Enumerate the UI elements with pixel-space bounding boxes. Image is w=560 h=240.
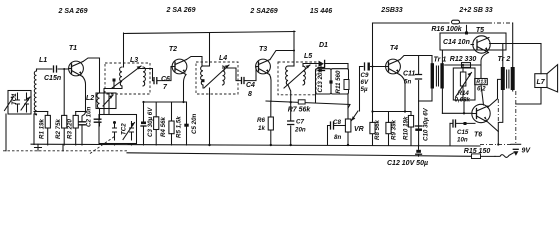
svg-text:8: 8 bbox=[248, 91, 252, 98]
svg-text:C7: C7 bbox=[296, 119, 304, 126]
svg-text:R16 100k: R16 100k bbox=[431, 26, 462, 33]
svg-text:C13 20n: C13 20n bbox=[317, 69, 324, 93]
svg-text:R9 39k: R9 39k bbox=[391, 119, 398, 140]
svg-text:C14 10n: C14 10n bbox=[443, 39, 470, 46]
svg-text:R1 19k: R1 19k bbox=[39, 118, 46, 139]
svg-text:9V: 9V bbox=[522, 148, 532, 155]
svg-text:C12 10V 50µ: C12 10V 50µ bbox=[387, 160, 428, 167]
svg-text:T2: T2 bbox=[169, 46, 177, 53]
svg-text:L2: L2 bbox=[86, 95, 94, 102]
svg-text:R7 56k: R7 56k bbox=[288, 107, 312, 114]
svg-text:T1: T1 bbox=[69, 45, 77, 52]
svg-text:R8 56k: R8 56k bbox=[374, 119, 381, 140]
svg-text:L7: L7 bbox=[537, 79, 546, 86]
svg-text:C4: C4 bbox=[246, 82, 255, 89]
svg-text:C10 30µ 6V: C10 30µ 6V bbox=[423, 107, 430, 141]
svg-text:Tr 1: Tr 1 bbox=[434, 57, 447, 64]
svg-text:5n: 5n bbox=[404, 79, 411, 86]
svg-text:20n: 20n bbox=[294, 127, 306, 134]
svg-text:R4 56k: R4 56k bbox=[160, 116, 167, 137]
svg-text:TC2: TC2 bbox=[121, 123, 128, 135]
svg-text:R12 330: R12 330 bbox=[450, 56, 477, 63]
svg-text:1k: 1k bbox=[258, 125, 265, 132]
svg-text:D1: D1 bbox=[319, 42, 328, 49]
svg-text:R15 150: R15 150 bbox=[464, 148, 491, 155]
svg-text:T6: T6 bbox=[474, 132, 482, 139]
svg-text:T3: T3 bbox=[259, 46, 267, 53]
svg-text:C3 30µ 6V: C3 30µ 6V bbox=[147, 107, 154, 137]
svg-text:2SB33: 2SB33 bbox=[380, 7, 403, 14]
svg-text:C11: C11 bbox=[403, 71, 415, 78]
svg-text:C9: C9 bbox=[361, 72, 369, 79]
svg-text:C6: C6 bbox=[161, 76, 170, 83]
svg-text:L4: L4 bbox=[219, 55, 227, 62]
svg-text:5µ: 5µ bbox=[361, 86, 368, 93]
svg-text:8n: 8n bbox=[334, 134, 341, 141]
svg-text:R3 220: R3 220 bbox=[67, 118, 74, 139]
svg-text:10n: 10n bbox=[457, 137, 468, 144]
svg-text:L5: L5 bbox=[304, 53, 312, 60]
svg-text:T4: T4 bbox=[390, 45, 398, 52]
svg-text:L1: L1 bbox=[39, 57, 47, 64]
svg-text:VR: VR bbox=[354, 126, 364, 133]
svg-text:R5 1,5k: R5 1,5k bbox=[176, 116, 183, 138]
svg-text:6V: 6V bbox=[361, 79, 369, 86]
svg-text:2+2 SB 33: 2+2 SB 33 bbox=[458, 7, 492, 14]
svg-text:C2 10n: C2 10n bbox=[86, 106, 93, 127]
svg-text:R6: R6 bbox=[257, 117, 265, 124]
svg-text:1S 446: 1S 446 bbox=[310, 8, 332, 15]
svg-text:R2 75k: R2 75k bbox=[55, 118, 62, 139]
svg-text:C8: C8 bbox=[333, 119, 341, 126]
svg-text:C15: C15 bbox=[457, 129, 469, 136]
svg-text:2 SA269: 2 SA269 bbox=[249, 8, 277, 15]
svg-text:Tr 2: Tr 2 bbox=[498, 56, 511, 63]
svg-text:R10 19k: R10 19k bbox=[403, 116, 410, 140]
svg-text:2 SA 269: 2 SA 269 bbox=[58, 8, 88, 15]
svg-text:C15n: C15n bbox=[44, 75, 61, 82]
svg-text:R11 560: R11 560 bbox=[335, 70, 342, 93]
svg-text:C5 20n: C5 20n bbox=[191, 113, 198, 134]
svg-text:2 SA 269: 2 SA 269 bbox=[166, 7, 196, 14]
